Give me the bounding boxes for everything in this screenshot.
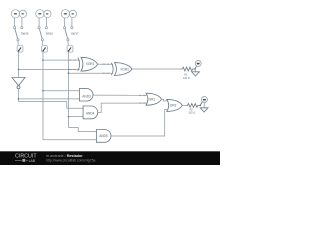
wire Bin to XOR1 in2 <box>69 72 114 74</box>
node B-AND3 junction <box>42 90 44 92</box>
wire A to XOR2 in2 (underpass) <box>19 68 80 70</box>
input stub dashes XOR1 <box>69 60 76 69</box>
svg-text:OR2: OR2 <box>170 104 177 108</box>
wire OR2 out to R2 <box>182 104 186 106</box>
ground G2 <box>200 108 208 112</box>
input stub dashes XOR2 <box>103 64 110 73</box>
svg-text:XOR1: XOR1 <box>86 62 95 66</box>
or gate OR1 <box>146 93 162 105</box>
node Abar-AND3 junction <box>18 98 20 100</box>
node Bin-XOR1 junction <box>68 72 70 74</box>
LED D2 cathode wire <box>203 103 205 108</box>
wire AND5 out to OR2 in2 <box>111 109 167 136</box>
svg-text:AND4: AND4 <box>86 112 95 116</box>
inverter NOT1 <box>12 78 25 89</box>
resistor R1 <box>181 67 193 71</box>
node B-XOR1 junction <box>42 59 44 61</box>
wire OR1 out to OR2 in1 <box>162 99 168 101</box>
and gate AND4 <box>83 106 98 119</box>
jog dash marks in1 <box>139 94 146 96</box>
wire R2 to node <box>199 104 200 106</box>
wire col1 inverted output <box>18 89 20 102</box>
node D2 junction <box>199 105 201 107</box>
xor gate XOR1 <box>78 57 98 71</box>
node A-rowA junction <box>18 69 20 71</box>
ground G1 stem <box>194 69 197 72</box>
wire Abar to AND3 in2 <box>19 98 80 100</box>
wire B to XOR1 in1 <box>43 59 80 61</box>
svg-text:m.andrade / Restador: m.andrade / Restador <box>46 154 83 158</box>
node Bin-AND4 junction <box>68 116 70 118</box>
wire XOR2 out to R1 <box>132 68 181 70</box>
node D1 junction <box>194 68 196 70</box>
svg-text:AND5: AND5 <box>99 134 108 138</box>
wire Bin to AND5 in1 <box>69 128 97 132</box>
toggle source SW17 <box>61 10 76 53</box>
wire col3 vertical Bin <box>68 52 70 127</box>
LED D1 lead <box>195 66 197 69</box>
footer bar <box>0 151 220 165</box>
svg-text:OR1: OR1 <box>149 97 156 101</box>
wire B to AND5 in2 <box>43 139 96 141</box>
circuitlab logo LAB row <box>15 159 36 163</box>
toggle source SW16 <box>36 10 51 53</box>
svg-text:http://www.circuitlab.com/c4g7: http://www.circuitlab.com/c4g75a <box>46 158 95 162</box>
wire col2 vertical B <box>42 52 44 140</box>
wire B to AND3 in1 <box>43 90 80 92</box>
wire Abar corner to AND4 in1 <box>19 102 84 109</box>
wire XOR1 out to XOR2 in1 <box>98 63 113 65</box>
and gate AND5 <box>96 130 111 143</box>
LED D2 <box>201 97 207 103</box>
wire col1 vertical A <box>18 52 20 77</box>
LED D1 <box>195 60 201 66</box>
and gate AND3 <box>79 89 93 101</box>
svg-text:AND3: AND3 <box>82 94 91 98</box>
or gate OR2 <box>167 99 183 111</box>
wire AND4 out to OR1 in2 <box>98 103 147 112</box>
jog dash marks in2 <box>139 102 146 104</box>
svg-text:100 Ω: 100 Ω <box>183 77 190 80</box>
svg-text:100 Ω: 100 Ω <box>188 112 195 115</box>
svg-text:SW16: SW16 <box>46 31 54 35</box>
wire AND3 out to OR1 in1 <box>93 94 146 96</box>
xor gate XOR2 <box>111 63 131 76</box>
svg-text:SW15: SW15 <box>21 31 29 35</box>
toggle source SW15 <box>11 10 26 53</box>
svg-text:LAB: LAB <box>29 159 36 163</box>
svg-text:XOR2: XOR2 <box>120 67 129 71</box>
ground G1 <box>192 72 200 76</box>
wire Bin to AND4 in2 <box>69 116 84 118</box>
wire R1 to node <box>194 68 195 70</box>
svg-text:SW17: SW17 <box>71 31 79 35</box>
LED D2 lead <box>200 102 202 106</box>
resistor R2 <box>187 104 199 108</box>
